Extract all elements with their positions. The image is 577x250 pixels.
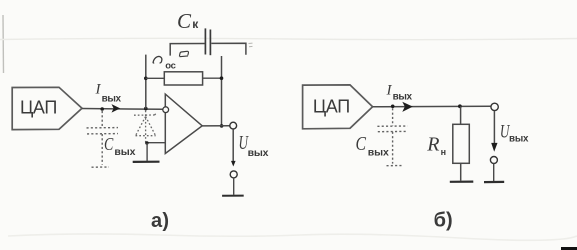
svg-text:б): б) bbox=[434, 209, 453, 231]
label R_ос glyph R bbox=[153, 57, 162, 63]
svg-text:вых: вых bbox=[368, 147, 389, 159]
terminal: lower output circle (б) bbox=[490, 157, 497, 164]
capacitor C_к top-left wire bbox=[170, 44, 204, 56]
svg-text:вых: вых bbox=[114, 146, 135, 158]
resistor R_ос bbox=[164, 72, 202, 85]
svg-text:C: C bbox=[356, 133, 367, 155]
label R_ос glyph 2 bbox=[179, 51, 188, 56]
wire: R_ос right to feedback vertical bbox=[203, 77, 222, 79]
svg-text:ЦАП: ЦАП bbox=[20, 97, 57, 117]
svg-text:а): а) bbox=[151, 210, 169, 232]
scan artifact: faint horizontal streaks bbox=[0, 38, 577, 39]
node: output junction (a) bbox=[220, 124, 224, 128]
label I_вых (б) bbox=[386, 82, 413, 102]
node: feedback tap junction on input wire (a) bbox=[144, 107, 148, 111]
wire: junction to R_н top bbox=[460, 106, 462, 124]
label C_вых (a) bbox=[104, 134, 136, 158]
diode VD dashed (protection, a) bbox=[134, 111, 157, 143]
wire: feedback right vertical (a) bbox=[221, 56, 223, 126]
label C_к bbox=[177, 9, 199, 33]
label U_вых with arrow (a) bbox=[232, 129, 234, 161]
wire: to output ground (б) bbox=[493, 164, 495, 182]
node: C_вых tap junction (б) bbox=[391, 105, 395, 109]
label I_вых (a) bbox=[95, 82, 122, 105]
wire: feedback left vertical (a) bbox=[145, 55, 147, 109]
node: load junction (б) bbox=[458, 104, 462, 108]
DAC symbol ЦАП (б) bbox=[303, 85, 373, 129]
wire: to output ground (a) bbox=[233, 178, 235, 195]
svg-text:вых: вых bbox=[393, 92, 413, 103]
wire: DAC output to load (б) bbox=[373, 105, 491, 108]
label R_н bbox=[426, 133, 446, 157]
current arrow on input wire (a) bbox=[112, 104, 121, 113]
wire: R_н bottom to ground bbox=[460, 163, 462, 180]
svg-text:ос: ос bbox=[165, 60, 175, 71]
label U_вых with arrow (б) bbox=[493, 111, 495, 146]
capacitor C_к plates bbox=[204, 28, 206, 54]
svg-text:I: I bbox=[386, 82, 393, 98]
capacitor C_к top-right wire bbox=[211, 43, 246, 55]
svg-text:C: C bbox=[104, 134, 114, 154]
wire: down to ground (a op-amp input) bbox=[146, 143, 148, 161]
node: R_ос right junction bbox=[220, 76, 224, 80]
wire: feedback to R_ос left bbox=[146, 77, 165, 79]
ground (R_н) bbox=[450, 181, 474, 183]
svg-text:к: к bbox=[192, 17, 199, 31]
label C_вых (б) bbox=[356, 133, 390, 159]
node: R_ос left junction bbox=[144, 77, 148, 81]
svg-text:вых: вых bbox=[509, 134, 529, 145]
terminal: lower output circle (a) bbox=[230, 171, 237, 178]
capacitor C_вых dashed (parasitic, б) bbox=[377, 108, 407, 165]
terminal: output circle (a) bbox=[230, 122, 237, 129]
op-amp U1 bbox=[165, 94, 202, 153]
svg-text:н: н bbox=[441, 147, 446, 157]
svg-text:вых: вых bbox=[248, 147, 269, 159]
svg-text:ЦАП: ЦАП bbox=[313, 97, 350, 117]
svg-text:C: C bbox=[177, 9, 192, 33]
node: C_вых tap junction (a) bbox=[100, 107, 104, 111]
wire: op-amp output (a) bbox=[202, 125, 230, 127]
svg-text:I: I bbox=[95, 82, 102, 98]
ground (output б) bbox=[484, 181, 504, 183]
wire: non-inverting input to ground (a) bbox=[147, 142, 166, 144]
ground (output a) bbox=[222, 195, 244, 197]
resistor R_н bbox=[453, 124, 470, 163]
scan artifact: bottom right black bar bbox=[561, 247, 577, 250]
current arrow on wire (б) bbox=[402, 102, 413, 112]
svg-text:R: R bbox=[426, 133, 439, 155]
svg-text:вых: вых bbox=[102, 93, 122, 104]
wire: DAC output to op-amp inverting input bbox=[82, 108, 163, 111]
terminal: output circle (б) bbox=[491, 103, 498, 110]
scan artifact: faint left edge line bbox=[2, 15, 5, 73]
capacitor C_вых dashed (parasitic, a) bbox=[87, 111, 119, 167]
terminal: inverting input circle (a) bbox=[163, 107, 169, 113]
ground (op-amp non-inverting input) bbox=[133, 161, 160, 163]
scan artifact: small dashes near Ck bbox=[249, 43, 253, 47]
DAC symbol ЦАП (a) bbox=[12, 87, 82, 129]
node: diode/ground junction (a) bbox=[145, 141, 148, 144]
